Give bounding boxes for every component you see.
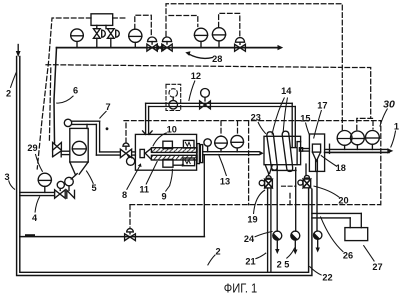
svg-text:12: 12: [191, 71, 201, 81]
svg-text:5: 5: [91, 183, 96, 193]
svg-text:8: 8: [122, 190, 127, 200]
svg-text:13: 13: [220, 176, 230, 186]
svg-text:11: 11: [139, 184, 149, 194]
svg-text:14: 14: [281, 86, 292, 96]
svg-text:1: 1: [394, 122, 399, 132]
svg-text:26: 26: [343, 250, 353, 260]
svg-text:9: 9: [161, 191, 166, 201]
svg-text:3: 3: [4, 172, 9, 182]
svg-text:2 5: 2 5: [277, 259, 290, 269]
svg-text:2: 2: [6, 88, 11, 98]
svg-text:30: 30: [383, 99, 395, 111]
svg-text:24: 24: [244, 234, 255, 244]
svg-text:27: 27: [372, 262, 382, 272]
svg-text:20: 20: [338, 195, 348, 205]
svg-text:28: 28: [212, 54, 222, 64]
svg-text:7: 7: [105, 102, 110, 112]
svg-text:23: 23: [251, 113, 261, 123]
svg-text:19: 19: [247, 214, 257, 224]
svg-text:18: 18: [336, 163, 346, 173]
svg-text:15: 15: [300, 113, 310, 123]
svg-text:29: 29: [27, 143, 37, 153]
svg-text:2: 2: [215, 246, 220, 256]
svg-text:22: 22: [322, 272, 332, 282]
svg-text:4: 4: [32, 213, 38, 223]
svg-text:17: 17: [317, 100, 327, 110]
svg-text:10: 10: [167, 124, 177, 134]
svg-text:6: 6: [73, 85, 78, 95]
svg-text:ФИГ. 1: ФИГ. 1: [224, 281, 258, 296]
svg-text:21: 21: [245, 256, 255, 266]
